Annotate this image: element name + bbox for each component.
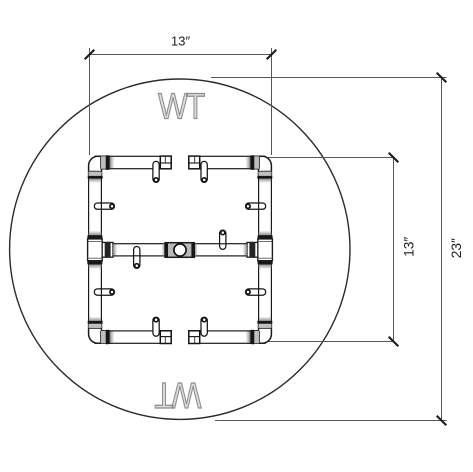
dimension line 13in right (393, 158, 395, 342)
end fitting bottom-right (189, 331, 200, 344)
peg middle-left (down) (134, 247, 140, 269)
tick top-right (267, 50, 277, 60)
peg top-left (down) (153, 161, 159, 182)
svg-text:23″: 23″ (449, 238, 464, 258)
table top circle (10, 79, 350, 419)
pipe middle (102, 244, 258, 256)
svg-text:WT: WT (158, 87, 205, 128)
tee fitting left (89, 231, 102, 236)
elbow fitting bottom-right (250, 321, 271, 343)
extension line 23in bottom (215, 420, 447, 422)
elbow fitting top-right (250, 156, 271, 178)
extension line right upper (262, 157, 394, 159)
pipe right side (259, 166, 272, 332)
svg-text:13″: 13″ (402, 237, 417, 257)
tee fitting right (259, 231, 272, 236)
pipe left side (89, 166, 102, 332)
end fitting top-right (189, 156, 200, 169)
peg left lower (right) (94, 289, 114, 295)
peg top-right (down) (201, 161, 207, 182)
pipe bottom-right (189, 331, 265, 343)
elbow fitting top-left (89, 156, 110, 178)
extension line top-right (271, 48, 273, 155)
peg bottom-right (up) (201, 317, 207, 336)
pipe top-left (95, 156, 171, 168)
peg bottom-left (up) (153, 317, 159, 336)
elbow fitting bottom-left (89, 321, 110, 343)
pipe top-right (189, 156, 265, 168)
tick 23in top (437, 73, 447, 83)
peg middle-right (up) (220, 230, 226, 249)
tick right upper (389, 153, 399, 163)
svg-text:13″: 13″ (171, 34, 191, 49)
svg-text:WT: WT (154, 374, 201, 415)
centre tee fitting (162, 244, 166, 256)
peg right upper (left) (246, 203, 266, 209)
dimension line 13in top (90, 54, 272, 56)
peg left upper (right) (94, 203, 114, 209)
dimension line 23in (441, 78, 443, 421)
extension line 23in top (211, 77, 447, 79)
tick 23in bottom (437, 416, 447, 426)
extension line right lower (262, 341, 394, 343)
tick right lower (389, 337, 399, 347)
tick top-left (85, 50, 95, 60)
end fitting top-left (160, 156, 171, 169)
centre tee opening (174, 244, 186, 256)
extension line top-left (89, 48, 91, 155)
peg right lower (left) (246, 289, 266, 295)
end fitting bottom-left (160, 331, 171, 344)
pipe bottom-left (95, 331, 171, 343)
